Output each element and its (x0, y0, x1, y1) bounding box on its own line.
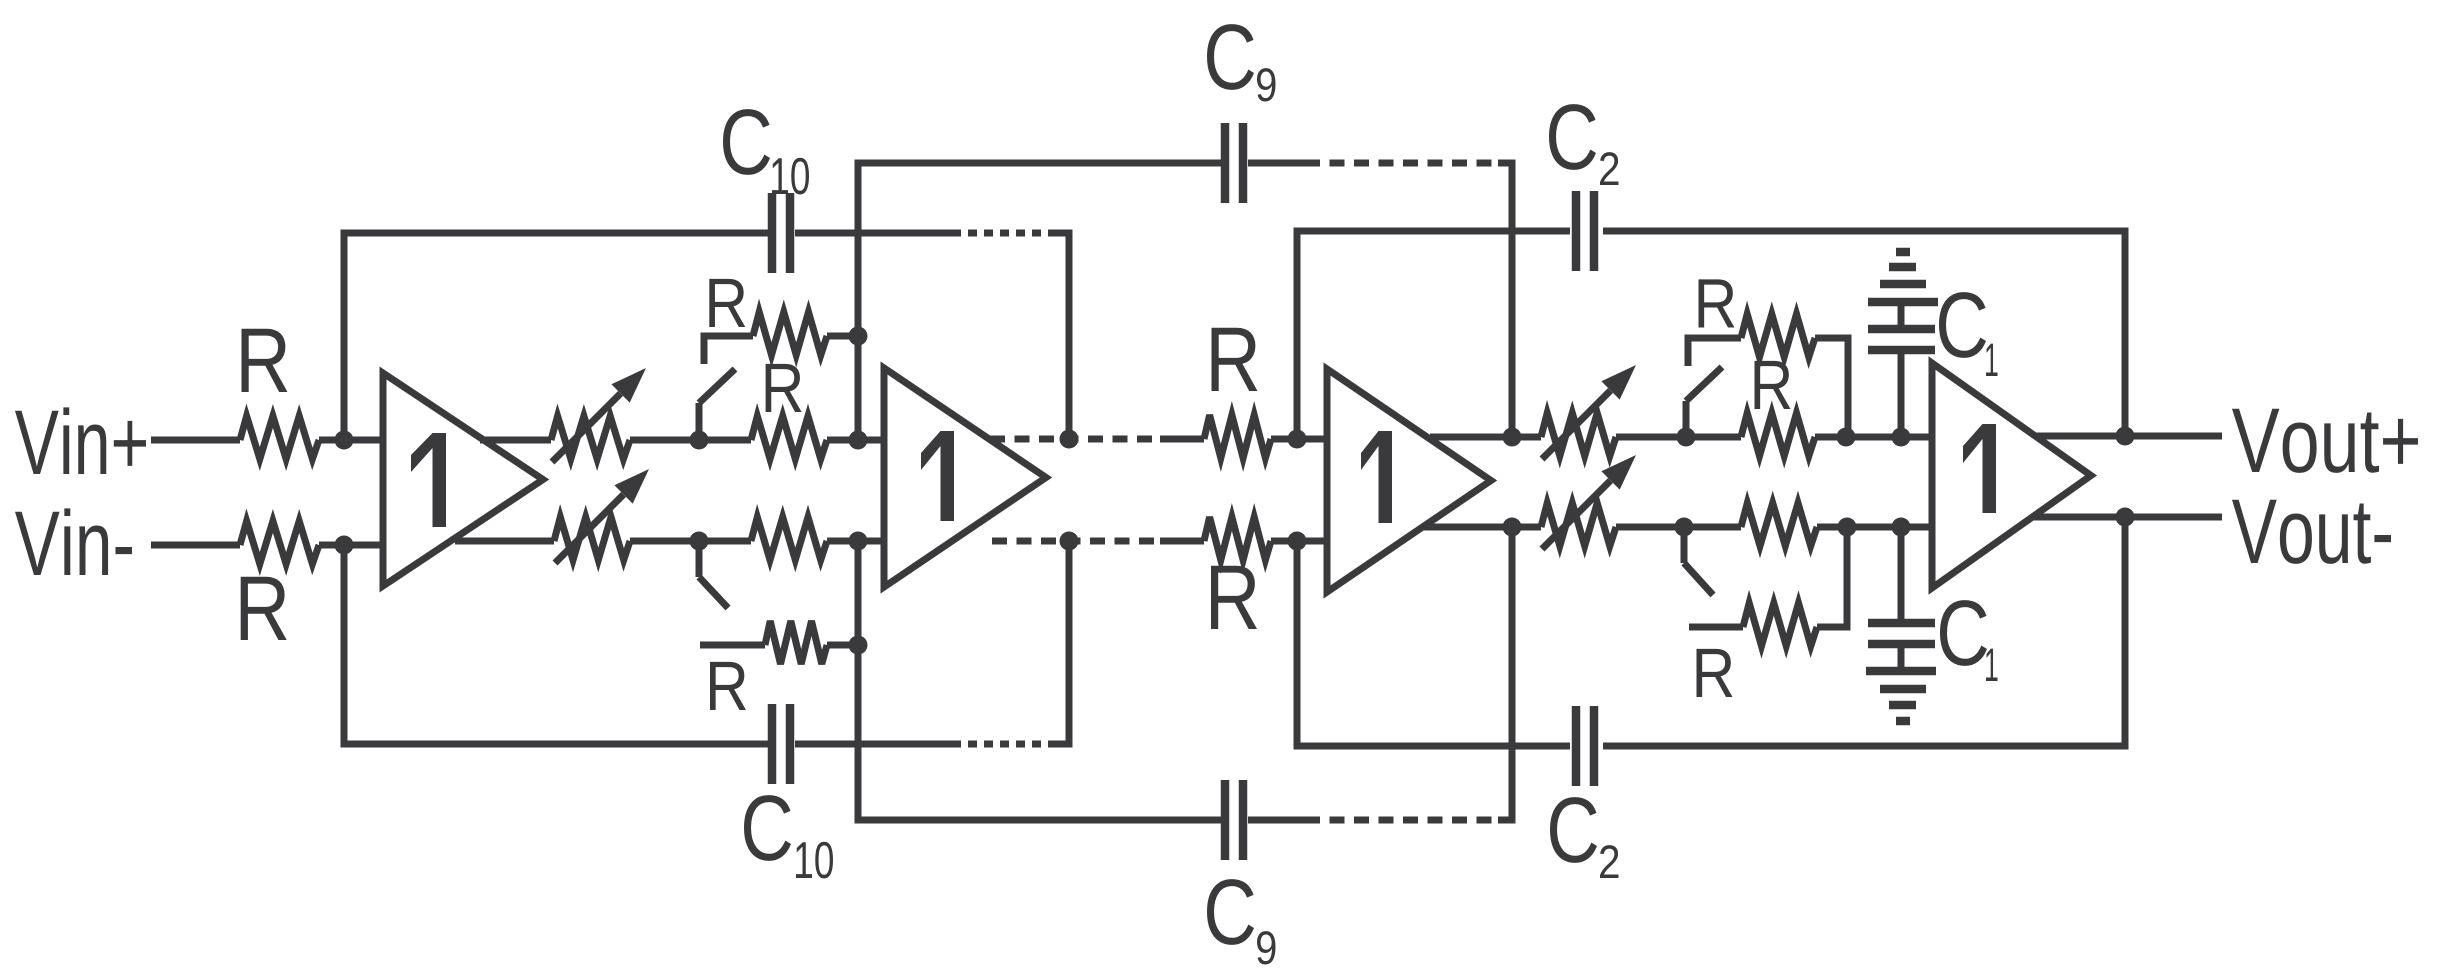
wire upper row corner to main (1815, 338, 1848, 437)
label 1 (amp3 gain) (1361, 431, 1392, 523)
label C9 (top) (1207, 24, 1254, 90)
resistor R (right upper row) (1741, 314, 1815, 357)
node Vout- junction (2116, 508, 2135, 527)
wire C9 bottom row / amp2 input vertical (858, 541, 1222, 820)
wire R to amp3 (1271, 436, 1327, 443)
label 1 (amp1 gain) (411, 433, 446, 527)
ground (bottom C1) (1898, 644, 1905, 671)
wire R to amp4 (1815, 434, 1932, 441)
node switch bottom junction (690, 532, 709, 551)
variable resistor (amp1 bottom output) (554, 517, 630, 560)
resistor R (stage2-3 bottom) (1204, 517, 1271, 560)
node Vin+ label (15, 411, 59, 474)
right lower R row terminal (1689, 624, 1743, 631)
wire varres to right R network (1616, 434, 1741, 441)
left upper R row corner (704, 336, 753, 364)
wire corner up to amp3 bottom output (1498, 527, 1512, 820)
node C9 bottom feedback junction (1503, 518, 1522, 537)
resistor R (left lower row) (765, 621, 827, 664)
variable resistor (amp1 top output) (551, 416, 630, 459)
resistor R (Vin- input) (240, 521, 319, 564)
wire to R bottom (1160, 538, 1204, 545)
label R (left upper row) (709, 279, 745, 327)
node C1 top junction (1892, 428, 1911, 447)
wire C9 top row / amp2 input vertical (858, 163, 1222, 440)
wire lower row to vertical (827, 642, 858, 649)
node switch top junction (690, 431, 709, 450)
node C10 bottom feedback junction (1060, 532, 1079, 551)
resistor R (Vin+ input) (240, 416, 319, 459)
capacitor C2 (top) (1572, 191, 1581, 271)
wire Vin+ lead (151, 437, 240, 444)
label 1 (amp2 gain) (921, 431, 954, 521)
capacitor C10 (bottom) (768, 704, 777, 784)
capacitor C2 (bottom) (1572, 706, 1581, 786)
wire R to amp2 (827, 437, 884, 444)
right upper R row corner (1688, 338, 1741, 366)
op-amp buffer 1 (first) (383, 373, 543, 586)
node lower row junction (849, 636, 868, 655)
node Vout+ junction (2116, 427, 2135, 446)
wire R to amp4 bottom (1817, 524, 1932, 531)
node right bottom row corner junction (1838, 518, 1857, 537)
label R (Vin- resistor) (241, 577, 287, 640)
node right switch top junction (1677, 428, 1696, 447)
label C2 (top) (1549, 104, 1596, 170)
wire node to bottom rail (344, 545, 770, 744)
left lower R row terminal (700, 642, 765, 649)
node amp2 - input (849, 532, 868, 551)
label R (right upper row) (1699, 279, 1735, 327)
op-amp buffer 1 (fourth) (1932, 363, 2091, 588)
label C2 (bottom) (1550, 797, 1597, 863)
wire C9 bottom dashed (1305, 817, 1500, 824)
node amp3 - input (1288, 532, 1307, 551)
node Vout+ label (2232, 409, 2279, 472)
label C10 (top) (723, 109, 770, 175)
wire top rail dashed (952, 230, 1054, 237)
wire amp3 top output (1430, 434, 1541, 441)
wire R to amp2 bottom (827, 538, 884, 545)
resistor R (right block top main) (1741, 413, 1815, 456)
node amp2 + input (849, 431, 868, 450)
wire Vin- lead (151, 542, 240, 549)
node right top row corner junction (1837, 428, 1856, 447)
resistor R (right block bottom main) (1741, 503, 1817, 546)
node Vout- label (2232, 500, 2277, 563)
capacitor C10 (top) (768, 193, 777, 273)
wire bottom rail dashed (952, 741, 1054, 748)
label 1 (amp4 gain) (1963, 424, 1996, 513)
wire upper row to vertical (827, 333, 858, 340)
wire corner up to amp2 bottom output (1052, 541, 1069, 744)
ground (top C1) (1898, 302, 1905, 329)
wire varres to right R network bottom (1616, 524, 1741, 531)
wire corner down to amp3 top output (1498, 163, 1512, 437)
wire amp4 top output (2036, 433, 2222, 440)
label C1 (top) (1939, 292, 1986, 358)
resistor R (left block bottom main) (751, 517, 827, 560)
label R (left lower row) (710, 662, 746, 710)
wire C9 top dashed (1305, 160, 1500, 167)
wire amp3 bottom output (1424, 524, 1541, 531)
wire bottom rail to dash (795, 741, 960, 748)
wire varres to R network bottom (630, 538, 751, 545)
switch (right top) (1683, 401, 1690, 437)
wire R to amp1 top (319, 437, 383, 444)
label C10 (bottom) (744, 795, 791, 861)
wire amp1 top output (480, 437, 551, 444)
label R (stage2-3 top) (1211, 328, 1257, 391)
wire C2 rail right (1603, 231, 2125, 436)
node C10 top feedback junction (1060, 430, 1079, 449)
capacitor C9 (bottom) (1221, 780, 1230, 860)
capacitor C1 (top) (1898, 350, 1905, 437)
label R (stage2-3 bottom) (1211, 566, 1257, 629)
node Vin- label (15, 512, 60, 575)
node amp3 + input (1288, 430, 1307, 449)
label R (right block top main) (1755, 361, 1791, 409)
wire C2 bottom rail right (1603, 517, 2125, 746)
wire amp2 bottom output dashed (992, 538, 1160, 545)
wire amp3 input to C2 bottom rail (1297, 541, 1570, 746)
node right switch bottom junction (1675, 518, 1694, 537)
label R (left block top main) (766, 364, 802, 412)
wire amp3 input to C2 rail (1297, 231, 1570, 439)
switch (left top) (696, 403, 703, 440)
variable resistor (amp3 bottom output) (1541, 503, 1616, 546)
wire corner down to amp2 top output (1052, 233, 1069, 439)
resistor R (stage2-3 top) (1204, 415, 1271, 458)
wire amp2 top output dashed (990, 436, 1160, 443)
op-amp buffer 1 (third) (1327, 369, 1491, 592)
resistor R (right lower row) (1743, 603, 1817, 646)
wire R to amp1 bottom (319, 542, 383, 549)
label R (Vin+ resistor) (241, 329, 287, 392)
label C9 (bottom) (1207, 879, 1254, 945)
wire C9 top to dash (1248, 160, 1305, 167)
capacitor C9 (top) (1221, 123, 1230, 203)
wire to R (1160, 436, 1204, 443)
wire amp4 bottom output (2032, 514, 2222, 521)
node C1 bottom junction (1892, 518, 1911, 537)
node amp1 + input (335, 431, 354, 450)
wire top rail to dash (795, 230, 960, 237)
wire R to amp3 bottom (1271, 538, 1327, 545)
node amp1 - input (335, 536, 354, 555)
wire amp1 bottom output (455, 538, 554, 545)
label R (right lower row) (1697, 649, 1733, 697)
variable resistor (amp3 top output) (1541, 413, 1616, 456)
capacitor C1 (bottom) (1898, 527, 1905, 623)
op-amp buffer 1 (second) (884, 368, 1046, 587)
resistor R (left block top main) (751, 416, 827, 459)
switch (left bottom) (696, 541, 703, 577)
wire varres to R network (630, 437, 751, 444)
wire node to top rail (344, 233, 770, 440)
node upper row junction (849, 327, 868, 346)
switch (right bottom) (1681, 527, 1688, 563)
label C1 (bottom) (1940, 600, 1987, 666)
resistor R (left upper row) (753, 312, 827, 355)
node C9 top feedback junction (1503, 428, 1522, 447)
wire C9 bottom to dash (1248, 817, 1305, 824)
wire lower row corner to main (1817, 527, 1847, 627)
